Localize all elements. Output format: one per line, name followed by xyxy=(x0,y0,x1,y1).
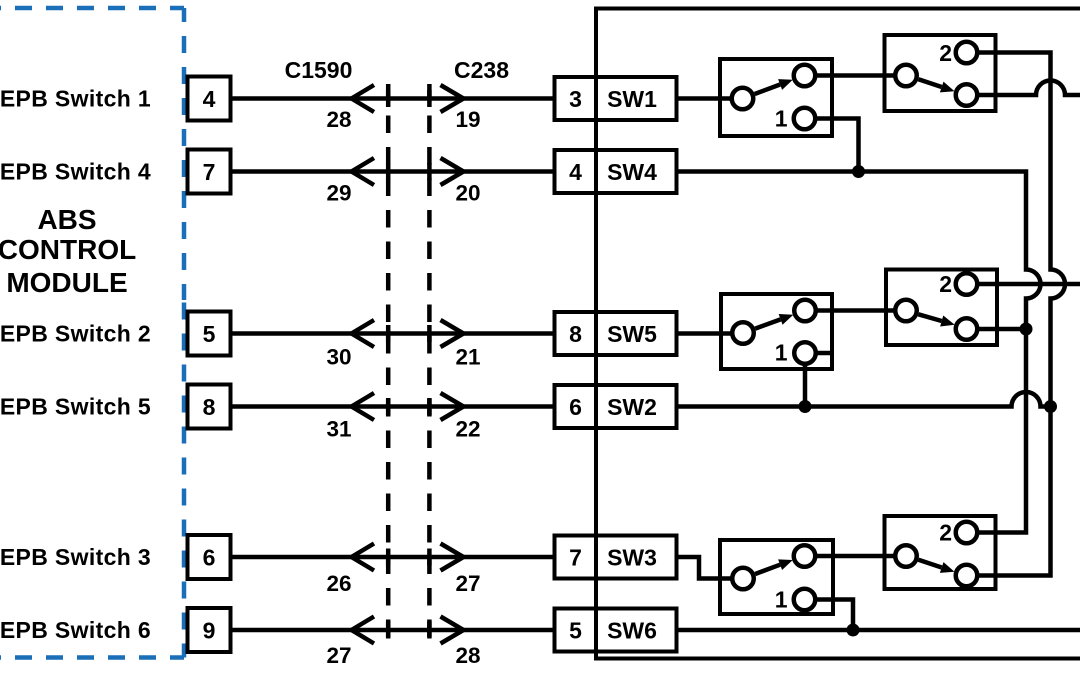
svg-text:27: 27 xyxy=(456,571,481,596)
pin box 4 (ABS module) xyxy=(188,77,231,121)
svg-text:C1590: C1590 xyxy=(285,57,353,83)
SW3 group second box: lower contact circle xyxy=(956,565,978,587)
switch lever arrow SW5 second box xyxy=(918,314,941,321)
pin box 8 (ABS module) xyxy=(188,385,231,429)
junction dot row2/circle1 drop xyxy=(852,165,865,178)
junction dot bus B / SW5 lower output xyxy=(1020,323,1033,336)
ABS control module dashed boundary (bottom edge) xyxy=(0,655,184,660)
SW3 group: upper contact circle xyxy=(794,545,816,567)
svg-text:22: 22 xyxy=(456,417,481,442)
junction dot row6/circle1 drop xyxy=(847,624,860,637)
connector half arrow right row 4 xyxy=(441,393,464,420)
connector half arrow left row 1 xyxy=(352,85,375,112)
svg-text:7: 7 xyxy=(203,159,216,185)
svg-text:EPB Switch 4: EPB Switch 4 xyxy=(0,159,151,185)
svg-text:4: 4 xyxy=(203,86,216,112)
svg-text:C238: C238 xyxy=(454,57,509,83)
connector half arrow right row 3 xyxy=(441,320,464,347)
switch module box bottom border xyxy=(594,657,1080,661)
switch assembly box U2 (SW1 group second box) xyxy=(885,35,996,111)
junction dot bus A / row4 xyxy=(1044,400,1057,413)
connector C238 dashed line xyxy=(427,84,432,651)
wire: SW1 group circle 1 drop to SW4 row xyxy=(805,119,859,172)
wire: SW3 group circle 1 drop to SW6 row xyxy=(805,600,854,631)
svg-text:SW2: SW2 xyxy=(607,394,657,420)
switch module box top border xyxy=(594,7,1080,11)
switch assembly box U1 (SW1 group outer box) xyxy=(720,59,832,136)
SW3 group: circle 1 contact xyxy=(794,589,816,611)
svg-text:5: 5 xyxy=(569,617,582,643)
wire: SW5 box to second box interconnect xyxy=(805,308,906,313)
svg-text:7: 7 xyxy=(569,544,582,570)
svg-text:SW4: SW4 xyxy=(607,159,657,185)
connector dash ticks at wire crossings xyxy=(388,90,429,639)
svg-text:EPB Switch 2: EPB Switch 2 xyxy=(0,321,151,347)
SW1 group: upper contact circle xyxy=(794,65,816,87)
svg-text:2: 2 xyxy=(939,40,952,66)
SW1 group: common contact circle xyxy=(732,88,754,110)
connector half arrow left row 2 xyxy=(352,158,375,185)
SW5 group second box: circle 2 contact xyxy=(956,273,978,295)
switch assembly box U5 (SW3 group outer box) xyxy=(720,540,833,614)
svg-text:6: 6 xyxy=(569,394,582,420)
pin box 6 (ABS module) xyxy=(188,535,231,579)
SW1 group second box: common circle xyxy=(895,65,917,87)
SW5 group second box: common circle xyxy=(895,300,917,322)
svg-text:27: 27 xyxy=(326,643,351,668)
svg-text:8: 8 xyxy=(569,321,582,347)
wire: SW5 group circle 1 drop to SW2 row xyxy=(803,353,808,407)
svg-text:MODULE: MODULE xyxy=(6,267,127,298)
wire: SW1 box to second box interconnect xyxy=(805,73,907,78)
switch assembly box U3 (SW5 group outer box) xyxy=(721,294,832,369)
pin box 7 (ABS module) xyxy=(188,150,231,194)
wire row 6: EPB Switch 6 pin 9 to SW6, continuing to right edge xyxy=(230,628,1080,633)
switch lever arrow SW3 box xyxy=(755,565,780,574)
svg-text:EPB Switch 5: EPB Switch 5 xyxy=(0,394,151,420)
svg-text:20: 20 xyxy=(456,181,481,206)
svg-text:26: 26 xyxy=(326,571,351,596)
connector half arrow right row 2 xyxy=(441,158,464,185)
svg-text:30: 30 xyxy=(326,345,351,370)
svg-text:1: 1 xyxy=(775,587,788,613)
connector half arrow left row 5 xyxy=(352,544,375,571)
pin box 9 (ABS module) xyxy=(188,608,231,652)
svg-text:1: 1 xyxy=(775,106,788,132)
pin box 7 SW3 xyxy=(555,536,677,579)
SW5 group: upper contact circle xyxy=(794,300,816,322)
svg-text:29: 29 xyxy=(326,181,351,206)
svg-text:EPB Switch 1: EPB Switch 1 xyxy=(0,86,151,112)
ABS control module dashed boundary (right edge) xyxy=(182,8,187,300)
svg-text:21: 21 xyxy=(456,345,481,370)
connector half arrow left row 4 xyxy=(352,393,375,420)
svg-text:9: 9 xyxy=(203,617,216,643)
SW3 group: common contact circle xyxy=(732,568,754,590)
SW1 group: circle 1 contact xyxy=(794,108,816,130)
vertical bus A: from SW1 group circle 2 down to SW3 group lower circle xyxy=(967,53,1066,576)
svg-text:4: 4 xyxy=(569,159,582,185)
wire row 2: EPB Switch 4 pin 7 to SW4, then to vertical bus B xyxy=(230,172,1041,533)
svg-text:SW3: SW3 xyxy=(607,544,657,570)
wire row 5: EPB Switch 3 pin 6 to SW3 with jog down xyxy=(230,557,743,579)
svg-text:SW6: SW6 xyxy=(607,617,657,643)
svg-text:3: 3 xyxy=(569,86,582,112)
connector half arrow left row 6 xyxy=(352,617,375,644)
svg-text:28: 28 xyxy=(326,107,351,132)
switch assembly box U4 (SW5 group second box) xyxy=(886,270,997,346)
switch lever arrow SW1 box xyxy=(755,85,780,95)
svg-text:6: 6 xyxy=(203,544,216,570)
svg-text:EPB Switch 6: EPB Switch 6 xyxy=(0,617,151,643)
wire row 4: EPB Switch 5 pin 8 to SW2, hop over bus B, join bus A xyxy=(230,392,1051,407)
svg-text:31: 31 xyxy=(326,417,351,442)
svg-text:19: 19 xyxy=(456,107,481,132)
wire: SW5 group circle 2 output to right edge xyxy=(967,282,1080,287)
pin box 8 SW5 xyxy=(555,312,677,355)
SW5 group: common contact circle xyxy=(732,322,754,344)
svg-text:8: 8 xyxy=(203,394,216,420)
wire: SW5 group lower output joining bus B xyxy=(967,327,1027,332)
svg-text:1: 1 xyxy=(775,340,788,366)
svg-text:5: 5 xyxy=(203,321,216,347)
svg-text:CONTROL: CONTROL xyxy=(0,234,136,265)
switch lever arrow SW3 second box xyxy=(918,560,941,568)
SW5 group: circle 1 contact xyxy=(794,342,816,364)
SW1 group second box: circle 2 contact xyxy=(956,42,978,64)
svg-text:SW1: SW1 xyxy=(607,86,657,112)
svg-text:EPB Switch 3: EPB Switch 3 xyxy=(0,544,151,570)
SW1 group second box: lower contact circle xyxy=(956,84,978,106)
pin box 5 SW6 xyxy=(555,609,677,652)
switch lever arrow SW5 box xyxy=(755,319,780,328)
svg-text:ABS: ABS xyxy=(37,204,96,235)
svg-text:2: 2 xyxy=(939,520,952,546)
wire: SW3 box to second box interconnect xyxy=(805,554,907,559)
pin box 4 SW4 xyxy=(555,150,677,193)
pin box 3 SW1 xyxy=(555,77,677,120)
connector C1590 dashed line xyxy=(386,84,391,651)
wire row 1: EPB Switch 1 pin 4 to SW1 xyxy=(230,96,743,101)
svg-text:28: 28 xyxy=(456,643,481,668)
junction dot row4/circle1 drop xyxy=(799,400,812,413)
connector half arrow right row 6 xyxy=(441,617,464,644)
connector half arrow right row 5 xyxy=(441,544,464,571)
switch lever arrow SW1 second box xyxy=(918,79,941,87)
switch module box left border xyxy=(594,9,598,659)
pin box 6 SW2 xyxy=(555,385,677,428)
svg-text:2: 2 xyxy=(939,271,952,297)
wire row 3: EPB Switch 2 pin 5 to SW5 xyxy=(230,331,743,336)
pin box 5 (ABS module) xyxy=(188,312,231,356)
SW5 group second box: lower contact circle xyxy=(956,318,978,340)
ABS control module dashed boundary (top edge) xyxy=(0,6,184,11)
wire: SW1 group lower output, hop over bus A, to right edge xyxy=(967,81,1080,96)
switch assembly box U6 (SW3 group second box) xyxy=(885,516,996,589)
SW3 group second box: circle 2 contact xyxy=(956,522,978,544)
svg-text:SW5: SW5 xyxy=(607,321,657,347)
connector half arrow left row 3 xyxy=(352,320,375,347)
SW3 group second box: common circle xyxy=(895,545,917,567)
connector half arrow right row 1 xyxy=(441,85,464,112)
wire: SW5 group circle 1 stub to box edge xyxy=(805,351,834,356)
